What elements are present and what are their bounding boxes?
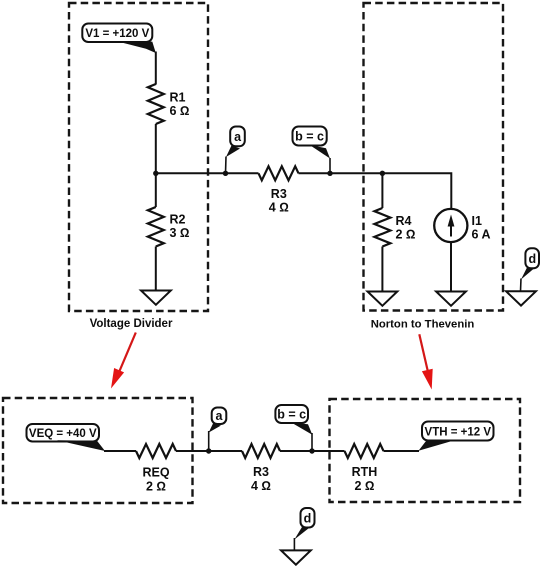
- wire VEQ to REQ: [104, 450, 136, 452]
- svg-text:b = c: b = c: [277, 408, 306, 422]
- svg-text:VEQ = +40 V: VEQ = +40 V: [29, 428, 97, 440]
- callout d (top right): [521, 248, 540, 291]
- node a (bottom): [206, 448, 211, 453]
- wire I1 to ground: [450, 242, 452, 292]
- red arrow right: [419, 334, 432, 389]
- svg-text:R2: R2: [170, 213, 186, 227]
- resistor REQ: [136, 444, 176, 494]
- node a (top): [223, 171, 228, 176]
- wire R4 node down: [381, 173, 383, 208]
- svg-text:b = c: b = c: [295, 130, 324, 144]
- callout a (top): [226, 127, 245, 174]
- node R4 top: [380, 171, 385, 176]
- ground d (bottom): [281, 550, 311, 564]
- wire REQ to R3 bottom: [176, 450, 242, 452]
- ground d (top right): [506, 291, 536, 305]
- callout d (bottom): [294, 508, 314, 550]
- svg-text:a: a: [234, 130, 242, 144]
- resistor R3 (top): [259, 166, 299, 214]
- resistor R2: [148, 207, 190, 247]
- dashed box Voltage Divider group: [69, 3, 208, 311]
- label V1 = +120 V: [82, 24, 156, 54]
- dashed box Norton group: [364, 3, 504, 311]
- svg-text:d: d: [528, 252, 536, 266]
- wire node to R2: [155, 173, 157, 207]
- callout b = c (top): [293, 127, 331, 174]
- svg-text:2 Ω: 2 Ω: [396, 228, 416, 242]
- callout b = c (bottom): [275, 405, 312, 451]
- ground under R2: [141, 291, 171, 305]
- wire R2 to ground: [155, 247, 157, 291]
- resistor R3 (bottom): [242, 444, 280, 493]
- ground under R4: [368, 292, 398, 306]
- svg-text:2 Ω: 2 Ω: [146, 480, 166, 494]
- label VEQ = +40 V: [27, 424, 106, 451]
- svg-text:Norton to Thevenin: Norton to Thevenin: [371, 319, 475, 331]
- wire R3 to node b=c bottom: [280, 450, 345, 452]
- node junction left: [153, 171, 158, 176]
- svg-text:I1: I1: [472, 214, 482, 228]
- svg-text:a: a: [216, 409, 224, 423]
- svg-text:2 Ω: 2 Ω: [354, 479, 374, 493]
- red arrow left: [111, 333, 136, 389]
- resistor R1: [148, 84, 190, 124]
- svg-text:VTH = +12 V: VTH = +12 V: [425, 427, 492, 439]
- svg-text:RTH: RTH: [352, 465, 378, 479]
- wire main horizontal left segment: [156, 172, 259, 174]
- wire RTH to VTH: [384, 450, 420, 452]
- svg-text:R4: R4: [396, 214, 412, 228]
- svg-text:6 Ω: 6 Ω: [170, 104, 190, 118]
- callout a (bottom): [209, 408, 227, 452]
- svg-text:REQ: REQ: [142, 466, 169, 480]
- node b=c (top): [327, 171, 332, 176]
- wire b=c to R4 node: [330, 172, 382, 174]
- wire R3 to node b=c: [299, 172, 331, 174]
- svg-text:V1 = +120 V: V1 = +120 V: [85, 28, 149, 40]
- svg-text:Voltage Divider: Voltage Divider: [90, 318, 173, 330]
- wire node to current source corner: [382, 173, 451, 208]
- svg-text:R1: R1: [170, 91, 186, 105]
- ground under I1: [436, 292, 466, 306]
- svg-text:d: d: [304, 512, 312, 526]
- svg-text:6 A: 6 A: [472, 228, 491, 242]
- wire R4 to ground: [381, 247, 383, 292]
- resistor RTH: [345, 444, 384, 493]
- current source I1: [434, 209, 490, 242]
- dashed box VEQ equivalent: [3, 398, 193, 503]
- label VTH = +12 V: [419, 422, 494, 451]
- svg-text:R3: R3: [271, 187, 287, 201]
- dashed box VTH equivalent: [330, 399, 521, 502]
- node b=c (bottom): [309, 448, 314, 453]
- svg-text:4 Ω: 4 Ω: [269, 201, 289, 215]
- svg-text:4 Ω: 4 Ω: [251, 479, 271, 493]
- svg-text:R3: R3: [253, 465, 269, 479]
- wire R1 to node A: [155, 124, 157, 173]
- wire V1 to R1: [155, 52, 157, 85]
- svg-text:3 Ω: 3 Ω: [170, 226, 190, 240]
- resistor R4: [374, 208, 415, 247]
